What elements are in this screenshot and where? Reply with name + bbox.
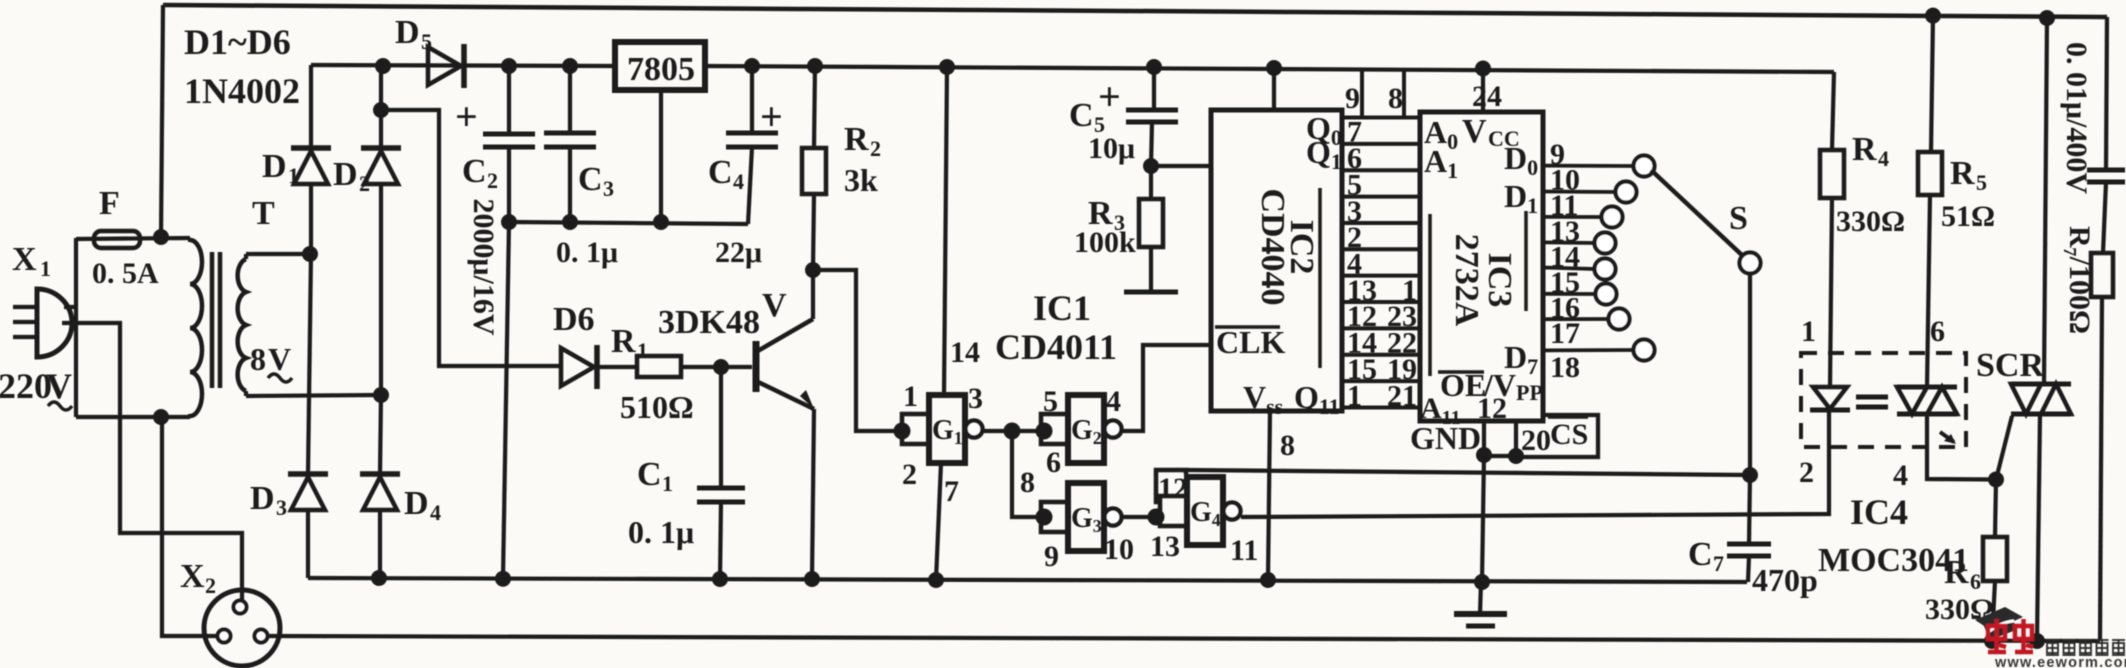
svg-text:D: D bbox=[404, 485, 429, 522]
gate G1 (IC1a) bbox=[929, 395, 965, 463]
svg-text:V: V bbox=[1462, 113, 1487, 150]
wire: G4 out to MOC3041 LED cathode bbox=[1241, 410, 1829, 517]
wire: X2 left pin to live column bbox=[162, 417, 218, 636]
svg-text:1: 1 bbox=[637, 338, 648, 363]
watermark red logo bbox=[1988, 619, 2006, 652]
MOC3041 internal LED bbox=[1813, 387, 1847, 409]
junction: X2 branch on primary return bbox=[153, 409, 169, 425]
resistor R1 510 ohm bbox=[597, 365, 637, 369]
junction: C5/R3 node bbox=[1143, 158, 1159, 174]
wire: D4 anode to 0V rail bbox=[378, 510, 382, 578]
svg-text:51Ω: 51Ω bbox=[1941, 200, 1995, 233]
svg-text:2000μ/16V: 2000μ/16V bbox=[467, 198, 500, 335]
socket X2 bbox=[204, 590, 280, 666]
wire: switch common to G4 pin12 and C7 bbox=[1186, 470, 1750, 475]
interconnect ladder IC2-IC3 bbox=[1342, 116, 1420, 120]
coupling mark bbox=[1856, 395, 1888, 400]
svg-text:3k: 3k bbox=[844, 162, 878, 198]
wire: IC3 Vcc pin24 bbox=[1481, 69, 1485, 113]
svg-text:F: F bbox=[99, 185, 120, 222]
optocoupler IC4 dashed box bbox=[1801, 353, 1966, 447]
junction: base node bbox=[713, 359, 729, 375]
IC3 data pin wires to switch contacts bbox=[1543, 164, 1634, 168]
svg-text:6: 6 bbox=[1970, 569, 1981, 594]
resistor R2 3k bbox=[814, 66, 815, 148]
svg-text:24: 24 bbox=[1472, 80, 1502, 113]
svg-text:17: 17 bbox=[1550, 317, 1580, 350]
diode D1 bbox=[291, 145, 331, 151]
svg-text:GND: GND bbox=[1410, 420, 1481, 456]
svg-text:4: 4 bbox=[733, 169, 744, 194]
snubber column: 0.01u/400V + R7/100ohm bbox=[2106, 17, 2107, 170]
svg-text:9: 9 bbox=[1345, 82, 1360, 115]
IC2 CD4040 bbox=[1211, 110, 1342, 411]
wire: D1 anode to AC node bbox=[309, 184, 313, 254]
svg-text:CD4011: CD4011 bbox=[995, 327, 1117, 367]
IC3 2732A bbox=[1420, 112, 1543, 421]
svg-text:www.eeworm.com: www.eeworm.com bbox=[1994, 655, 2126, 668]
diode D6 bbox=[594, 345, 600, 389]
capacitor C2 2000u/16V bbox=[507, 66, 511, 134]
wire: capacitor common line bbox=[509, 222, 748, 224]
svg-text:7: 7 bbox=[944, 475, 959, 508]
svg-text:R: R bbox=[1944, 554, 1969, 591]
svg-text:13: 13 bbox=[1150, 530, 1180, 563]
svg-text:12: 12 bbox=[1477, 392, 1507, 425]
svg-text:CD4040: CD4040 bbox=[1254, 188, 1291, 305]
svg-text:2: 2 bbox=[870, 136, 881, 161]
ladder feed stubs 9 / 8 bbox=[1360, 68, 1364, 118]
resistor R3 100k bbox=[1149, 166, 1153, 199]
svg-text:C: C bbox=[1688, 536, 1713, 573]
svg-text:C: C bbox=[708, 154, 733, 191]
wire: 220V live top rail bbox=[163, 5, 2107, 17]
watermark graduation cap bbox=[1975, 607, 2023, 631]
pin 12 loop box bbox=[1156, 470, 1186, 502]
wire: D2/D4 leg bbox=[380, 395, 381, 474]
wire: X2 right pin bottom return to SCR bbox=[267, 636, 2100, 641]
transformer core bbox=[210, 252, 215, 388]
svg-text:5: 5 bbox=[1043, 385, 1058, 418]
ground symbol bbox=[1480, 582, 1481, 614]
svg-text:D6: D6 bbox=[553, 301, 595, 338]
wire: D1/D3 leg bbox=[308, 254, 311, 474]
wire: C2 negative down to 0V rail bbox=[503, 222, 509, 578]
fuse F 0.5A bbox=[76, 238, 190, 239]
svg-text:C: C bbox=[578, 161, 603, 198]
wire: drop from rail corner to D1 cathode bbox=[309, 65, 313, 148]
svg-text:D: D bbox=[333, 156, 358, 193]
svg-text:D1~D6: D1~D6 bbox=[184, 22, 291, 62]
junction: fuse to live rail bbox=[153, 229, 169, 245]
diode D3 bbox=[288, 471, 328, 477]
svg-text:9: 9 bbox=[1044, 540, 1059, 573]
svg-text:0. 01μ/400V: 0. 01μ/400V bbox=[2060, 42, 2093, 194]
SCR triac bbox=[2044, 18, 2047, 384]
svg-text:8: 8 bbox=[1020, 466, 1035, 499]
svg-text:2: 2 bbox=[205, 573, 216, 598]
svg-text:5: 5 bbox=[421, 29, 432, 54]
svg-text:7805: 7805 bbox=[627, 51, 695, 88]
svg-text:V: V bbox=[268, 341, 291, 377]
svg-text:SCR: SCR bbox=[1976, 347, 2044, 384]
svg-text:2: 2 bbox=[1799, 456, 1814, 489]
svg-text:CS: CS bbox=[1550, 418, 1588, 451]
svg-text:1: 1 bbox=[662, 471, 673, 496]
junction: G1 output node bbox=[1004, 423, 1021, 440]
junction: collector node bbox=[805, 262, 821, 278]
svg-text:510Ω: 510Ω bbox=[620, 389, 694, 425]
svg-text:8: 8 bbox=[250, 341, 266, 377]
svg-text:3: 3 bbox=[603, 176, 614, 201]
svg-text:4: 4 bbox=[430, 500, 441, 525]
svg-text:18: 18 bbox=[1550, 351, 1580, 384]
svg-text:12: 12 bbox=[1158, 472, 1188, 505]
wire: SCR gate diagonal bbox=[1996, 416, 2012, 480]
wire: +V rectified rail (D1 cathode to 7805 and +5V distribution) bbox=[311, 65, 614, 66]
wire: C5/R3 node to IC2 reset bbox=[1151, 164, 1211, 168]
svg-text:2: 2 bbox=[902, 458, 917, 491]
svg-text:20: 20 bbox=[1521, 424, 1551, 457]
svg-text:1: 1 bbox=[40, 256, 51, 281]
junction: SCR gate node bbox=[1988, 472, 2004, 488]
wire: plug top terminal to fuse column bbox=[64, 305, 78, 309]
wire: G1 pin7 to 0V bbox=[936, 463, 941, 580]
junction: raw DC tap to D6 bbox=[373, 102, 389, 118]
switch S arm bbox=[1651, 170, 1744, 257]
switch S contacts bbox=[1634, 156, 1655, 177]
wire: 7805 ground pin bbox=[659, 90, 663, 222]
svg-text:100k: 100k bbox=[1074, 226, 1136, 259]
wire: 0V ground rail bbox=[308, 578, 1747, 582]
svg-text:X: X bbox=[180, 558, 205, 595]
resistor R5 51 ohm bbox=[1918, 152, 1942, 195]
svg-text:CLK: CLK bbox=[1216, 324, 1285, 360]
wire: SCR MT1 down to mains return bbox=[2037, 414, 2040, 641]
svg-text:V: V bbox=[762, 287, 787, 324]
svg-text:3DK48: 3DK48 bbox=[658, 304, 760, 341]
svg-text:PP: PP bbox=[1516, 380, 1543, 405]
svg-text:4: 4 bbox=[1106, 385, 1121, 418]
wire: top-left drop from live rail to fuse node bbox=[161, 5, 163, 237]
wire: G1 pin14 supply bbox=[944, 67, 947, 395]
svg-text:2: 2 bbox=[487, 168, 498, 193]
wire: G3 out to G4 in bbox=[1122, 515, 1156, 519]
svg-text:8: 8 bbox=[1388, 82, 1403, 115]
wire: secondary bottom to bridge right leg bbox=[246, 395, 381, 396]
svg-text:0. 5A: 0. 5A bbox=[92, 257, 159, 290]
wire: raw DC feed down to D6 bbox=[381, 110, 561, 366]
plug X1 bbox=[37, 289, 72, 357]
svg-text:C: C bbox=[462, 153, 487, 190]
svg-text:C: C bbox=[1069, 97, 1094, 134]
wire/junction: R5 tap on live rail bbox=[1925, 8, 1941, 24]
wire: common to C7 bbox=[1749, 475, 1750, 544]
resistor R4 330 ohm bbox=[1832, 72, 1834, 150]
wire: primary bottom return bbox=[76, 415, 190, 419]
diode D5 bbox=[461, 44, 467, 88]
capacitor C4 22u bbox=[750, 66, 754, 133]
wire: G1 out to G2 in bbox=[983, 429, 1044, 433]
svg-text:22μ: 22μ bbox=[715, 236, 762, 269]
svg-text:8: 8 bbox=[1280, 429, 1295, 462]
svg-text:D: D bbox=[250, 480, 275, 517]
svg-text:V: V bbox=[46, 366, 72, 406]
wire: IC2 VSS pin to 0V rail bbox=[1268, 411, 1270, 580]
gate arrow inside dashed box bbox=[1940, 432, 1954, 442]
svg-text:0. 1μ: 0. 1μ bbox=[556, 236, 618, 269]
gate G4 (IC1d) bbox=[1187, 477, 1223, 545]
svg-text:1N4002: 1N4002 bbox=[184, 71, 300, 111]
wire: MOC triac to gate node of SCR bbox=[1927, 414, 1996, 480]
svg-text:R: R bbox=[1950, 155, 1975, 192]
svg-text:1: 1 bbox=[288, 163, 299, 188]
svg-text:6: 6 bbox=[1046, 446, 1061, 479]
wire: GND net down to rail and ground symbol bbox=[1482, 455, 1484, 582]
capacitor C1 0.1u bbox=[719, 367, 723, 488]
wire: emitter to 0V rail bbox=[812, 409, 814, 579]
svg-text:14: 14 bbox=[950, 336, 980, 369]
svg-text:C: C bbox=[637, 456, 662, 493]
resistor R6 330 ohm bbox=[1995, 480, 1996, 538]
svg-text:470p: 470p bbox=[1752, 562, 1818, 598]
svg-text:330Ω: 330Ω bbox=[1836, 205, 1905, 238]
svg-text:1: 1 bbox=[1801, 315, 1816, 348]
MOC3041 internal triac bbox=[1897, 385, 1957, 390]
wire: G1 node down to G3 bbox=[1012, 431, 1044, 517]
svg-text:2: 2 bbox=[359, 171, 370, 196]
CS select box bbox=[1516, 415, 1598, 457]
watermark site name bbox=[2046, 640, 2059, 655]
svg-text:S: S bbox=[1729, 200, 1748, 237]
svg-text:10: 10 bbox=[1104, 533, 1134, 566]
svg-text:6: 6 bbox=[1930, 315, 1945, 348]
capacitor C7 470p bbox=[1727, 542, 1771, 547]
svg-text:1: 1 bbox=[1347, 379, 1362, 412]
capacitor C3 0.1u bbox=[568, 66, 572, 133]
wire: D2 cathode to +rail bbox=[379, 66, 383, 148]
wire: secondary top to bridge left leg bbox=[246, 252, 311, 256]
svg-text:10μ: 10μ bbox=[1088, 132, 1135, 165]
wire: IC2 VDD pin to +5V rail bbox=[1272, 68, 1276, 110]
wire: fuse column down left side bbox=[74, 238, 78, 417]
svg-text:X: X bbox=[12, 241, 37, 278]
svg-text:220: 220 bbox=[0, 366, 52, 406]
svg-text:IC4: IC4 bbox=[1850, 492, 1908, 532]
wire: collector node to G1 input bbox=[813, 270, 902, 431]
transformer T primary winding bbox=[190, 240, 202, 416]
svg-text:+: + bbox=[760, 94, 783, 139]
svg-text:IC3: IC3 bbox=[1481, 253, 1518, 308]
svg-text:R: R bbox=[1852, 131, 1877, 168]
svg-text:2732A: 2732A bbox=[1448, 234, 1485, 327]
svg-text:0. 1μ: 0. 1μ bbox=[628, 514, 694, 550]
svg-text:R: R bbox=[844, 121, 869, 158]
diode D4 bbox=[360, 471, 400, 477]
gate G2 (IC1b) bbox=[1068, 395, 1104, 463]
diode D2 bbox=[361, 145, 401, 151]
capacitor C5 10u bbox=[1152, 67, 1156, 110]
svg-text:11: 11 bbox=[1230, 534, 1258, 567]
svg-text:D: D bbox=[262, 148, 287, 185]
regulator 7805 bbox=[615, 42, 705, 90]
svg-text:D: D bbox=[395, 14, 420, 51]
transformer T secondary winding 8V bbox=[238, 259, 246, 391]
wire: D3 anode to 0V rail corner bbox=[306, 510, 310, 578]
svg-text:4: 4 bbox=[1893, 459, 1908, 492]
wire: D2 anode to AC node bbox=[379, 184, 383, 395]
svg-text:IC1: IC1 bbox=[1033, 288, 1091, 328]
svg-text:1: 1 bbox=[903, 380, 918, 413]
svg-text:R₇/100Ω: R₇/100Ω bbox=[2063, 226, 2096, 334]
svg-text:+: + bbox=[455, 94, 478, 139]
wire: IC3 GND pin 12 down bbox=[1482, 421, 1486, 455]
wire: plug lower terminal bbox=[62, 323, 242, 601]
svg-text:5: 5 bbox=[1976, 170, 1987, 195]
svg-text:4: 4 bbox=[1878, 146, 1889, 171]
svg-text:3: 3 bbox=[276, 495, 287, 520]
svg-text:R: R bbox=[611, 323, 636, 360]
svg-text:7: 7 bbox=[1713, 551, 1724, 576]
wire: switch common down bbox=[1748, 273, 1752, 475]
transistor V 3DK48 bbox=[753, 341, 760, 392]
svg-text:3: 3 bbox=[968, 382, 983, 415]
wire: G2 out to IC2 CLK bbox=[1122, 345, 1211, 431]
gate G3 (IC1c) bbox=[1068, 483, 1104, 551]
svg-text:21: 21 bbox=[1387, 379, 1417, 412]
svg-text:T: T bbox=[252, 195, 275, 232]
